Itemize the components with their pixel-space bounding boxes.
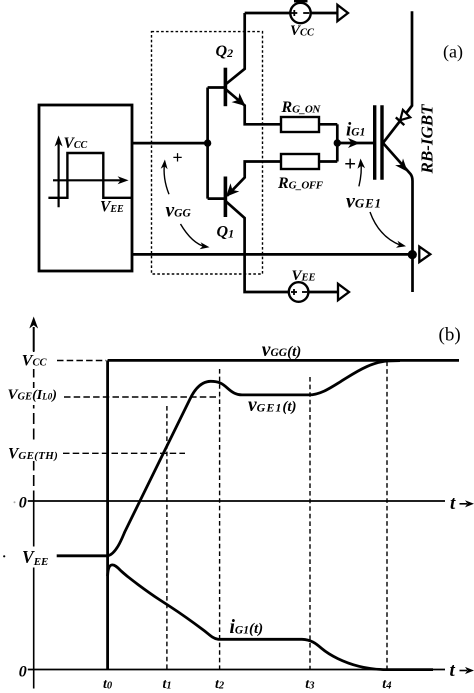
svg-text:t: t [450, 493, 456, 514]
svg-text:Q2: Q2 [216, 43, 234, 60]
svg-text:(b): (b) [439, 325, 461, 346]
svg-text:RB-IGBT: RB-IGBT [418, 104, 437, 175]
svg-text:(a): (a) [443, 42, 463, 63]
svg-text:+: + [172, 148, 182, 168]
svg-text:t: t [450, 660, 456, 681]
svg-text:Q1: Q1 [217, 223, 235, 240]
svg-text:0: 0 [19, 664, 27, 681]
svg-text:+: + [344, 152, 356, 176]
svg-text:0: 0 [19, 495, 27, 512]
